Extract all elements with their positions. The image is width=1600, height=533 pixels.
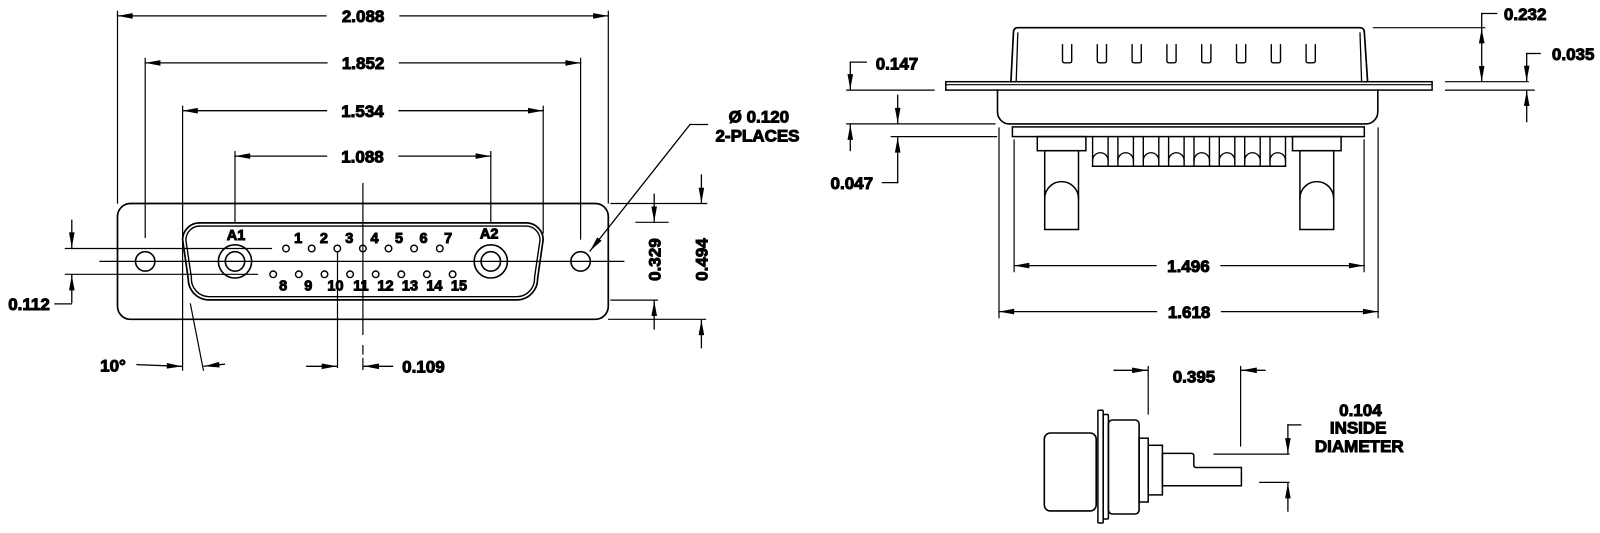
svg-text:1.618: 1.618 bbox=[1168, 303, 1211, 322]
svg-text:14: 14 bbox=[426, 279, 442, 295]
svg-text:0.329: 0.329 bbox=[645, 238, 664, 281]
svg-text:2.088: 2.088 bbox=[342, 7, 385, 26]
svg-text:1.496: 1.496 bbox=[1167, 257, 1210, 276]
svg-text:0.047: 0.047 bbox=[831, 174, 874, 193]
svg-text:0.104: 0.104 bbox=[1339, 401, 1382, 420]
svg-text:INSIDE: INSIDE bbox=[1330, 418, 1387, 437]
svg-text:Ø 0.120: Ø 0.120 bbox=[729, 107, 790, 126]
svg-text:0.395: 0.395 bbox=[1173, 367, 1216, 386]
svg-text:4: 4 bbox=[371, 231, 379, 247]
svg-text:10: 10 bbox=[327, 279, 343, 295]
svg-text:1.088: 1.088 bbox=[341, 147, 384, 166]
svg-text:1.534: 1.534 bbox=[341, 102, 384, 121]
svg-text:3: 3 bbox=[345, 231, 353, 247]
svg-text:0.494: 0.494 bbox=[693, 238, 712, 281]
svg-text:0.035: 0.035 bbox=[1552, 45, 1595, 64]
svg-text:2-PLACES: 2-PLACES bbox=[715, 126, 799, 145]
svg-text:12: 12 bbox=[377, 279, 393, 295]
svg-text:0.232: 0.232 bbox=[1504, 5, 1547, 24]
svg-text:0.147: 0.147 bbox=[876, 55, 919, 74]
svg-text:10°: 10° bbox=[100, 356, 126, 375]
svg-text:0.112: 0.112 bbox=[8, 295, 50, 314]
svg-text:DIAMETER: DIAMETER bbox=[1315, 437, 1404, 456]
svg-text:A2: A2 bbox=[480, 227, 499, 243]
svg-text:0.109: 0.109 bbox=[402, 358, 445, 377]
svg-text:6: 6 bbox=[420, 231, 428, 247]
svg-text:7: 7 bbox=[444, 231, 452, 247]
svg-text:2: 2 bbox=[320, 231, 328, 247]
svg-text:5: 5 bbox=[395, 231, 403, 247]
svg-text:9: 9 bbox=[304, 279, 312, 295]
svg-text:11: 11 bbox=[353, 279, 368, 295]
svg-text:A1: A1 bbox=[227, 228, 246, 244]
svg-text:15: 15 bbox=[451, 279, 467, 295]
svg-text:1: 1 bbox=[294, 231, 302, 247]
svg-text:8: 8 bbox=[279, 279, 287, 295]
svg-text:1.852: 1.852 bbox=[342, 54, 385, 73]
svg-text:13: 13 bbox=[402, 279, 418, 295]
